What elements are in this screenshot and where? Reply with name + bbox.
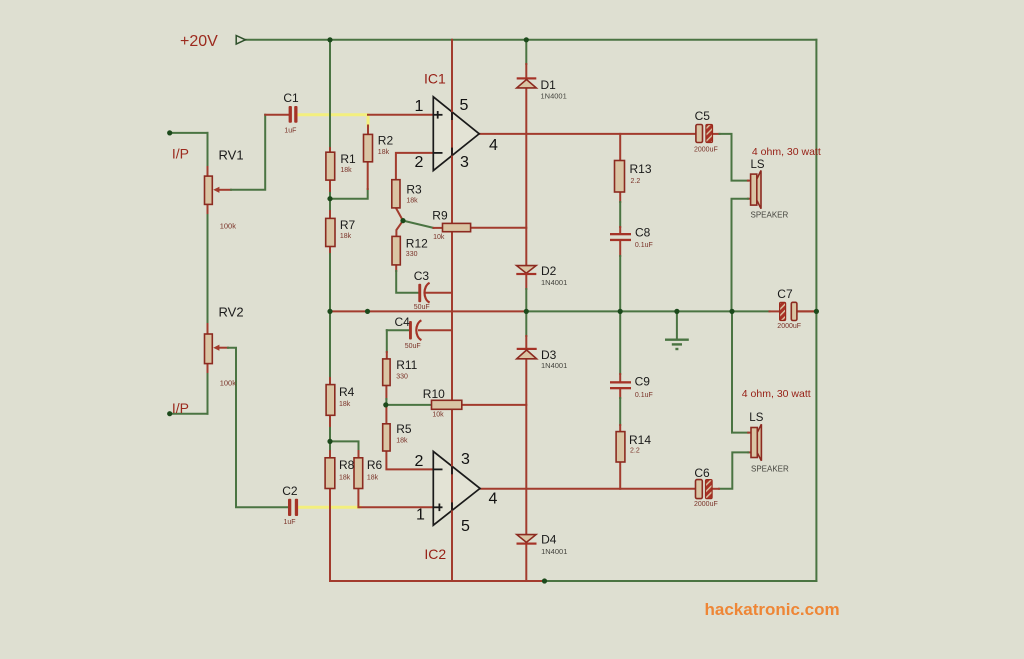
label C1 value [284, 128, 296, 135]
wire RV2 wiper to C2 [218, 348, 288, 508]
wire mid rail to C7 [770, 310, 780, 312]
label 4 ohm 30 watt speaker1 [752, 146, 821, 158]
label R13 value [631, 178, 641, 185]
wire RV2 bottom to input2 [207, 364, 209, 414]
svg-text:18k: 18k [339, 474, 351, 481]
node mid rail D2 D3 [524, 309, 529, 314]
svg-text:3: 3 [461, 451, 470, 468]
svg-text:LS: LS [749, 412, 763, 424]
resistor R4 [326, 385, 335, 416]
wire mid rail to speaker2 top [732, 311, 751, 432]
label R5 value [396, 437, 408, 444]
label R1 [340, 152, 356, 166]
label C2 value [284, 519, 296, 526]
pin 4 IC2 [489, 490, 498, 507]
label R3 [406, 183, 422, 197]
label R3 value [406, 197, 418, 204]
wire IC1 output to C5 [479, 133, 696, 135]
svg-text:4: 4 [489, 137, 498, 154]
pin 1 IC2 [416, 507, 425, 524]
pin 2 IC1 [415, 154, 424, 171]
wire mid rail to D3 [525, 311, 527, 347]
label R6 value [367, 474, 379, 481]
wire yellow C2 to R6/IC2 [299, 506, 361, 509]
node top rail R1 [327, 37, 332, 42]
svg-text:C4: C4 [395, 315, 411, 329]
svg-text:RV1: RV1 [219, 148, 244, 163]
label IC1 [424, 71, 446, 87]
svg-text:R5: R5 [396, 422, 412, 436]
wire C7 to right rail [797, 310, 817, 312]
wire IC1 pin5-pin3 vertical line [451, 40, 453, 581]
label R6 [367, 458, 383, 472]
label R13 [630, 162, 652, 176]
wire node to R7 [329, 199, 331, 219]
svg-text:5: 5 [461, 518, 470, 535]
wire C2 node to IC2 pin1 [360, 506, 433, 508]
label C1 [283, 91, 299, 105]
wire node to R5 top [385, 405, 387, 424]
wire C4 left lead [387, 330, 409, 359]
label +20V [180, 33, 218, 50]
node R1 R7 R2 [327, 196, 332, 201]
wire R1 bottom to node [329, 180, 331, 199]
label C8 value [635, 242, 653, 249]
svg-text:LS: LS [751, 159, 765, 171]
wire C8 to mid rail [619, 241, 621, 311]
svg-text:D3: D3 [541, 348, 557, 362]
potentiometer RV1 [205, 176, 220, 204]
svg-text:5: 5 [460, 97, 469, 114]
svg-text:100k: 100k [220, 379, 237, 388]
wire R13 to C8 [619, 192, 621, 233]
svg-text:3: 3 [460, 154, 469, 171]
svg-text:R14: R14 [629, 433, 651, 447]
watermark hackatronic.com [705, 600, 840, 619]
label R7 [340, 218, 356, 232]
svg-text:100k: 100k [220, 222, 237, 231]
wire D3 to D4 through output2 [525, 359, 527, 535]
op-amp U IC1 [433, 97, 479, 171]
label R12 [406, 237, 428, 251]
svg-text:2000uF: 2000uF [694, 146, 718, 153]
label R14 value [630, 447, 640, 454]
wire C4 right to pin3 line [419, 329, 452, 331]
wire right rail [815, 40, 817, 581]
resistor R2 [364, 134, 373, 161]
wire IC1 pin2 to R3 [396, 153, 433, 180]
svg-text:4 ohm, 30 watt: 4 ohm, 30 watt [752, 146, 821, 158]
resistor R9 [443, 223, 471, 231]
diode D1 [517, 77, 537, 88]
svg-text:C9: C9 [635, 374, 651, 388]
wire R5 bottom to IC2 pin2 [386, 451, 433, 469]
wire speaker2 bottom to C6 [712, 452, 751, 488]
label C2 [282, 484, 298, 498]
resistor R6 [354, 458, 363, 489]
wire RV1 bottom to RV2 top [207, 204, 209, 334]
svg-text:+20V: +20V [180, 33, 218, 50]
svg-text:SPEAKER: SPEAKER [751, 465, 789, 474]
svg-text:1uF: 1uF [284, 128, 296, 135]
svg-text:2.2: 2.2 [631, 178, 641, 185]
svg-text:R3: R3 [406, 183, 422, 197]
resistor R10 [432, 400, 462, 409]
svg-text:18k: 18k [367, 474, 379, 481]
label D1 value [541, 91, 567, 100]
label D4 value [541, 547, 567, 556]
svg-text:R7: R7 [340, 218, 356, 232]
svg-text:2: 2 [415, 154, 424, 171]
label R1 value [340, 167, 352, 174]
svg-text:4: 4 [489, 490, 498, 507]
label LS2 [749, 412, 763, 424]
capacitor C3 [418, 283, 429, 303]
svg-text:1: 1 [415, 98, 424, 115]
svg-text:1: 1 [416, 507, 425, 524]
wire R10 right to D-chain [462, 404, 527, 406]
wire D1 to D2 through output [525, 88, 527, 266]
label R2 [378, 134, 394, 148]
wire node to R10 [386, 404, 432, 406]
node mid rail left [327, 309, 332, 314]
svg-text:C7: C7 [777, 287, 793, 301]
svg-text:50uF: 50uF [414, 304, 430, 311]
wire mid rail green right of C7 [797, 310, 817, 312]
svg-text:R1: R1 [340, 152, 356, 166]
label D4 [541, 533, 557, 547]
capacitor C8 [610, 233, 631, 241]
wire R11 bottom to node [385, 386, 387, 405]
label C4 [395, 315, 411, 329]
wire input1 [170, 132, 208, 134]
node mid rail right [814, 309, 819, 314]
label R4 value [339, 401, 351, 408]
wire node to R2 bottom [330, 162, 368, 199]
svg-text:330: 330 [406, 251, 418, 258]
label R9 [432, 208, 448, 222]
capacitor C6 [696, 480, 713, 499]
wire R14 to output2 [619, 462, 621, 489]
svg-text:1uF: 1uF [284, 519, 296, 526]
label R8 value [339, 474, 351, 481]
wire D chain top [525, 40, 527, 78]
wire output1 to R13 [619, 134, 621, 161]
capacitor C7 [780, 302, 797, 320]
svg-text:D2: D2 [541, 264, 557, 278]
svg-text:10k: 10k [433, 234, 445, 241]
svg-text:2: 2 [415, 453, 424, 470]
speaker LS2 [751, 424, 761, 461]
node R4 R8 R6 [327, 439, 332, 444]
svg-text:1N4001: 1N4001 [541, 547, 567, 556]
diode D3 [517, 348, 537, 359]
pin 5 IC2 [461, 518, 470, 535]
wire node to R6 [330, 441, 359, 457]
label D3 [541, 348, 557, 362]
resistor R5 [383, 424, 390, 451]
wire mid rail to C9 [619, 311, 621, 381]
svg-text:C1: C1 [283, 91, 299, 105]
wire R7 bottom to mid rail [329, 247, 331, 312]
label LS1 [751, 159, 765, 171]
label RV2 value [220, 379, 237, 388]
wire top rail +20V [245, 39, 816, 41]
label C6 value [694, 501, 718, 508]
label D3 value [541, 361, 567, 370]
wire yellow C1 to R2/IC1 [298, 115, 368, 126]
svg-text:C8: C8 [635, 225, 651, 239]
svg-text:R2: R2 [378, 134, 394, 148]
label C7 [777, 287, 793, 301]
resistor R12 [392, 236, 400, 265]
svg-text:4 ohm, 30 watt: 4 ohm, 30 watt [742, 388, 811, 400]
svg-text:D4: D4 [541, 533, 557, 547]
node bottom rail [542, 578, 547, 583]
svg-text:18k: 18k [339, 401, 351, 408]
svg-text:R4: R4 [339, 385, 355, 399]
label C9 value [635, 392, 653, 399]
node R11 R5 R10 [383, 402, 388, 407]
power arrow +20V [236, 36, 245, 45]
resistor R7 [326, 218, 335, 246]
svg-text:10k: 10k [432, 412, 444, 419]
potentiometer RV2 [205, 334, 220, 364]
svg-text:R8: R8 [339, 458, 355, 472]
svg-text:I/P: I/P [172, 146, 189, 162]
svg-text:SPEAKER: SPEAKER [751, 211, 789, 220]
wire node to R9 diagonal [403, 221, 443, 228]
svg-text:18k: 18k [340, 167, 352, 174]
node mid rail C8 C9 [618, 309, 623, 314]
label 4 ohm 30 watt speaker2 [742, 388, 811, 400]
svg-text:R9: R9 [432, 208, 448, 222]
wire C1 node to IC1 pin1 [368, 114, 433, 116]
wire mid rail to R4 [329, 311, 331, 384]
wire R6 bottom to yellow node [357, 489, 359, 508]
svg-text:1N4001: 1N4001 [541, 91, 567, 100]
label IC2 [424, 546, 446, 562]
label RV1 [219, 148, 244, 163]
svg-text:C3: C3 [414, 269, 430, 283]
node R3 R12 R9 [400, 218, 405, 223]
label R8 [339, 458, 355, 472]
op-amp U IC2 [433, 451, 480, 525]
label R11 [396, 358, 417, 372]
node mid rail ground [674, 309, 679, 314]
label C9 [635, 374, 651, 388]
label R9 value [433, 234, 445, 241]
label R7 value [340, 233, 352, 240]
node input1 [167, 130, 172, 135]
label C3 [414, 269, 430, 283]
svg-text:1N4001: 1N4001 [541, 361, 567, 370]
svg-text:RV2: RV2 [219, 305, 244, 320]
label C4 value [405, 343, 421, 350]
resistor R11 [383, 359, 390, 386]
label C5 value [694, 146, 718, 153]
svg-text:C5: C5 [695, 109, 711, 123]
pin 1 IC1 [415, 98, 424, 115]
label R5 [396, 422, 412, 436]
wire D4 to bottom rail [525, 545, 527, 582]
resistor R13 [615, 161, 625, 193]
svg-text:2000uF: 2000uF [694, 501, 718, 508]
label I/P top [172, 146, 189, 162]
svg-text:R10: R10 [423, 387, 445, 401]
svg-text:R12: R12 [406, 237, 428, 251]
label C5 [695, 109, 711, 123]
pin 3 IC2 [461, 451, 470, 468]
ground [665, 311, 689, 349]
wire RV1 wiper to C1 [218, 115, 289, 190]
node top rail D1 [524, 37, 529, 42]
capacitor C9 [610, 381, 631, 389]
svg-text:18k: 18k [340, 233, 352, 240]
svg-text:50uF: 50uF [405, 343, 421, 350]
wire input1 down to RV1 [207, 133, 209, 176]
label R10 [423, 387, 445, 401]
diode D2 [516, 266, 536, 276]
svg-text:C2: C2 [282, 484, 298, 498]
label D1 [541, 78, 557, 92]
resistor R14 [616, 432, 625, 462]
label RV2 [219, 305, 244, 320]
svg-text:0.1uF: 0.1uF [635, 242, 653, 249]
svg-text:2.2: 2.2 [630, 447, 640, 454]
wire R12 bottom to C3 [396, 265, 418, 293]
label R12 value [406, 251, 418, 258]
label SPEAKER1 [751, 211, 789, 220]
pin 2 IC2 [415, 453, 424, 470]
wire D2 to mid rail [525, 275, 527, 312]
speaker LS1 [751, 171, 761, 209]
label C6 [694, 466, 710, 480]
capacitor C1 [289, 106, 298, 123]
svg-text:C6: C6 [694, 466, 710, 480]
wire bottom rail green [545, 580, 817, 582]
capacitor C2 [288, 499, 298, 516]
label I/P bottom [172, 400, 189, 416]
svg-text:1N4001: 1N4001 [541, 278, 567, 287]
pin 4 IC1 [489, 137, 498, 154]
svg-text:IC1: IC1 [424, 71, 446, 87]
svg-text:R13: R13 [630, 162, 652, 176]
label C7 value [777, 323, 801, 330]
label C8 [635, 225, 651, 239]
wire +20V rail to R1 chain [329, 40, 331, 152]
node input2 [167, 411, 172, 416]
wire R3 bottom to node [396, 208, 403, 220]
capacitor C4 [409, 320, 421, 340]
wire R2 top to yellow [367, 126, 369, 135]
svg-text:R11: R11 [396, 358, 417, 372]
resistor R3 [392, 180, 400, 208]
wire node to R12 top [396, 221, 403, 237]
label R2 value [378, 149, 390, 156]
node mid rail speakers [729, 309, 734, 314]
wire C3 right to pin3 line [426, 292, 452, 294]
svg-text:I/P: I/P [172, 400, 189, 416]
svg-text:hackatronic.com: hackatronic.com [705, 600, 840, 619]
svg-text:18k: 18k [378, 149, 390, 156]
wire mid rail red [330, 310, 526, 312]
capacitor C5 [696, 125, 713, 143]
label SPEAKER2 [751, 465, 789, 474]
svg-text:IC2: IC2 [424, 546, 446, 562]
wire IC2 output to C6 [480, 488, 696, 490]
svg-text:330: 330 [396, 373, 408, 380]
wire mid rail green [526, 310, 769, 312]
wire speaker1 bottom to mid rail [732, 199, 751, 312]
wire R9 right to D-chain [471, 227, 527, 229]
label C3 value [414, 304, 430, 311]
label R10 value [432, 412, 444, 419]
resistor R1 [326, 152, 335, 180]
label R14 [629, 433, 651, 447]
resistor R8 [325, 458, 335, 489]
node mid rail stub [365, 309, 370, 314]
pin 3 IC1 [460, 154, 469, 171]
wire R4 bottom to node [329, 415, 331, 441]
wire C5 to speaker1 top [713, 134, 751, 181]
wire input2 [170, 413, 208, 415]
svg-text:2000uF: 2000uF [777, 323, 801, 330]
svg-text:D1: D1 [541, 78, 557, 92]
wire node to R8 [329, 441, 331, 457]
svg-text:18k: 18k [406, 197, 418, 204]
wire bottom rail red [330, 489, 545, 582]
label D2 value [541, 278, 567, 287]
svg-text:18k: 18k [396, 437, 408, 444]
label RV1 value [220, 222, 237, 231]
svg-text:R6: R6 [367, 458, 383, 472]
label D2 [541, 264, 557, 278]
label R4 [339, 385, 355, 399]
diode D4 [517, 535, 537, 545]
pin 5 IC1 [460, 97, 469, 114]
label R11 value [396, 373, 408, 380]
wire C9 to R14 [619, 389, 621, 431]
svg-text:0.1uF: 0.1uF [635, 392, 653, 399]
